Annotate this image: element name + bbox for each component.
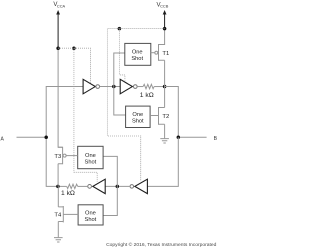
svg-text:Shot: Shot bbox=[132, 119, 144, 125]
wire T1 source down to node N2 bbox=[164, 60, 166, 86]
power VCCB arrow bbox=[163, 10, 167, 29]
inverter U6 (A-side receiver) bbox=[88, 179, 105, 194]
wire node N2 to B column bbox=[165, 87, 179, 138]
wire U5 output to node N3 bbox=[105, 185, 130, 187]
node B junction dot bbox=[177, 136, 181, 140]
wire R1 to node N2 bbox=[154, 86, 165, 88]
transistor T4 bbox=[58, 206, 63, 222]
wire R2 to A column node bbox=[58, 185, 67, 187]
dashed supply VCCB to U5 bbox=[107, 29, 140, 181]
wire T3 source down to node N4 bbox=[57, 164, 59, 187]
copyright notice bbox=[106, 241, 217, 248]
node A junction dot bbox=[44, 136, 48, 140]
svg-text:CCA: CCA bbox=[57, 3, 66, 8]
svg-text:T3: T3 bbox=[54, 154, 62, 160]
svg-text:1 kΩ: 1 kΩ bbox=[61, 190, 75, 197]
wire B terminal bbox=[178, 136, 206, 138]
wire T2 source to ground bbox=[164, 124, 166, 138]
svg-text:T4: T4 bbox=[54, 213, 62, 219]
transistor T3 label bbox=[54, 154, 62, 160]
inverter U5 (B-side receiver) bbox=[130, 179, 147, 194]
node N3 junction dot bbox=[116, 185, 120, 189]
ground G2 bbox=[54, 238, 63, 242]
svg-text:B: B bbox=[214, 136, 218, 142]
junction dot dashed branch right bbox=[118, 27, 122, 31]
wire U2 output to resistor R1 bbox=[137, 86, 143, 88]
svg-text:One: One bbox=[85, 210, 96, 216]
inverter U1 (A-side driver) bbox=[83, 79, 99, 94]
transistor T1 gate bubble bbox=[155, 51, 158, 54]
svg-text:One: One bbox=[132, 50, 143, 56]
svg-text:T1: T1 bbox=[162, 51, 169, 57]
wire T4 drain up to node N4 bbox=[57, 186, 59, 207]
junction dot VCCA rail bbox=[56, 46, 60, 50]
node B label bbox=[214, 136, 218, 142]
wire VCCA rail down to T3 drain bbox=[58, 48, 63, 147]
wire U1 output to node N1 bbox=[100, 86, 121, 88]
one-shot U3 text bbox=[131, 50, 143, 63]
junction dot VCCB rail bbox=[163, 27, 167, 31]
svg-text:One: One bbox=[132, 112, 143, 118]
junction dot dashed branch left bbox=[72, 46, 76, 50]
dashed supply VCCB to U2 bbox=[119, 29, 164, 81]
node N1 junction dot bbox=[112, 85, 116, 89]
one-shot U7 box bbox=[78, 146, 103, 168]
dashed supply VCCA to U6 bbox=[74, 48, 97, 181]
wire VCCB rail down to T1 source bbox=[159, 29, 165, 45]
svg-text:Copyright © 2016, Texas Instru: Copyright © 2016, Texas Instruments Inco… bbox=[106, 241, 217, 248]
wire U8 output to T4 gate bbox=[63, 213, 78, 215]
wire N1 tap to one-shot U3 input bbox=[114, 53, 125, 87]
wire T2 drain up to node N2 bbox=[164, 87, 166, 108]
wire U6 output to resistor R2 bbox=[78, 185, 88, 187]
wire B column down to inverter U5 input bbox=[147, 137, 178, 186]
svg-text:T2: T2 bbox=[162, 114, 169, 120]
one-shot U4 text bbox=[132, 112, 144, 125]
resistor R2 1 kOhm bbox=[67, 184, 78, 188]
svg-text:1 kΩ: 1 kΩ bbox=[140, 92, 154, 99]
transistor T2 label bbox=[162, 114, 169, 120]
wire T4 source to ground bbox=[57, 222, 59, 238]
svg-text:One: One bbox=[85, 153, 96, 159]
one-shot U3 box bbox=[125, 43, 151, 65]
svg-text:Shot: Shot bbox=[85, 217, 97, 223]
node N2 junction dot bbox=[163, 85, 167, 89]
wire A column down to 1k resistor row bbox=[46, 137, 58, 186]
svg-text:Shot: Shot bbox=[131, 56, 143, 62]
transistor T3 gate bubble bbox=[63, 154, 66, 157]
wire A column up to inverter U1 input bbox=[46, 87, 83, 138]
transistor T1 label bbox=[162, 51, 169, 57]
wire A terminal bbox=[17, 136, 47, 138]
wire U4 output to T2 gate bbox=[150, 115, 158, 117]
dashed supply VCCA to U1 bbox=[58, 48, 90, 83]
svg-text:CCB: CCB bbox=[160, 3, 169, 8]
power VCCA arrow bbox=[56, 10, 60, 48]
transistor T2 bbox=[159, 107, 165, 125]
one-shot U8 text bbox=[85, 210, 97, 223]
resistor R1 value label bbox=[140, 92, 154, 99]
one-shot U4 box bbox=[126, 106, 151, 127]
svg-text:A: A bbox=[1, 136, 5, 142]
resistor R1 1 kOhm bbox=[143, 84, 154, 88]
transistor T3 bbox=[58, 147, 63, 164]
wire U3 output to T1 gate bbox=[151, 52, 155, 54]
node N4 junction dot bbox=[56, 185, 60, 189]
wire N3 tap down to one-shot U8 input bbox=[103, 186, 117, 215]
svg-text:Shot: Shot bbox=[85, 159, 97, 165]
wire N1 tap down to one-shot U4 input bbox=[114, 87, 126, 115]
transistor T1 bbox=[159, 44, 165, 61]
inverter U2 (B-side driver) bbox=[120, 79, 137, 94]
one-shot U8 box bbox=[78, 205, 103, 225]
wire N3 tap up to one-shot U7 input bbox=[103, 156, 117, 186]
one-shot U7 text bbox=[85, 153, 97, 166]
node A label bbox=[1, 136, 5, 142]
transistor T4 label bbox=[54, 213, 62, 219]
power VCCA label bbox=[53, 1, 65, 8]
wire U7 output to T3 gate bbox=[66, 155, 78, 157]
resistor R2 value label bbox=[61, 190, 75, 197]
power VCCB label bbox=[157, 1, 169, 8]
ground G1 bbox=[160, 139, 169, 143]
